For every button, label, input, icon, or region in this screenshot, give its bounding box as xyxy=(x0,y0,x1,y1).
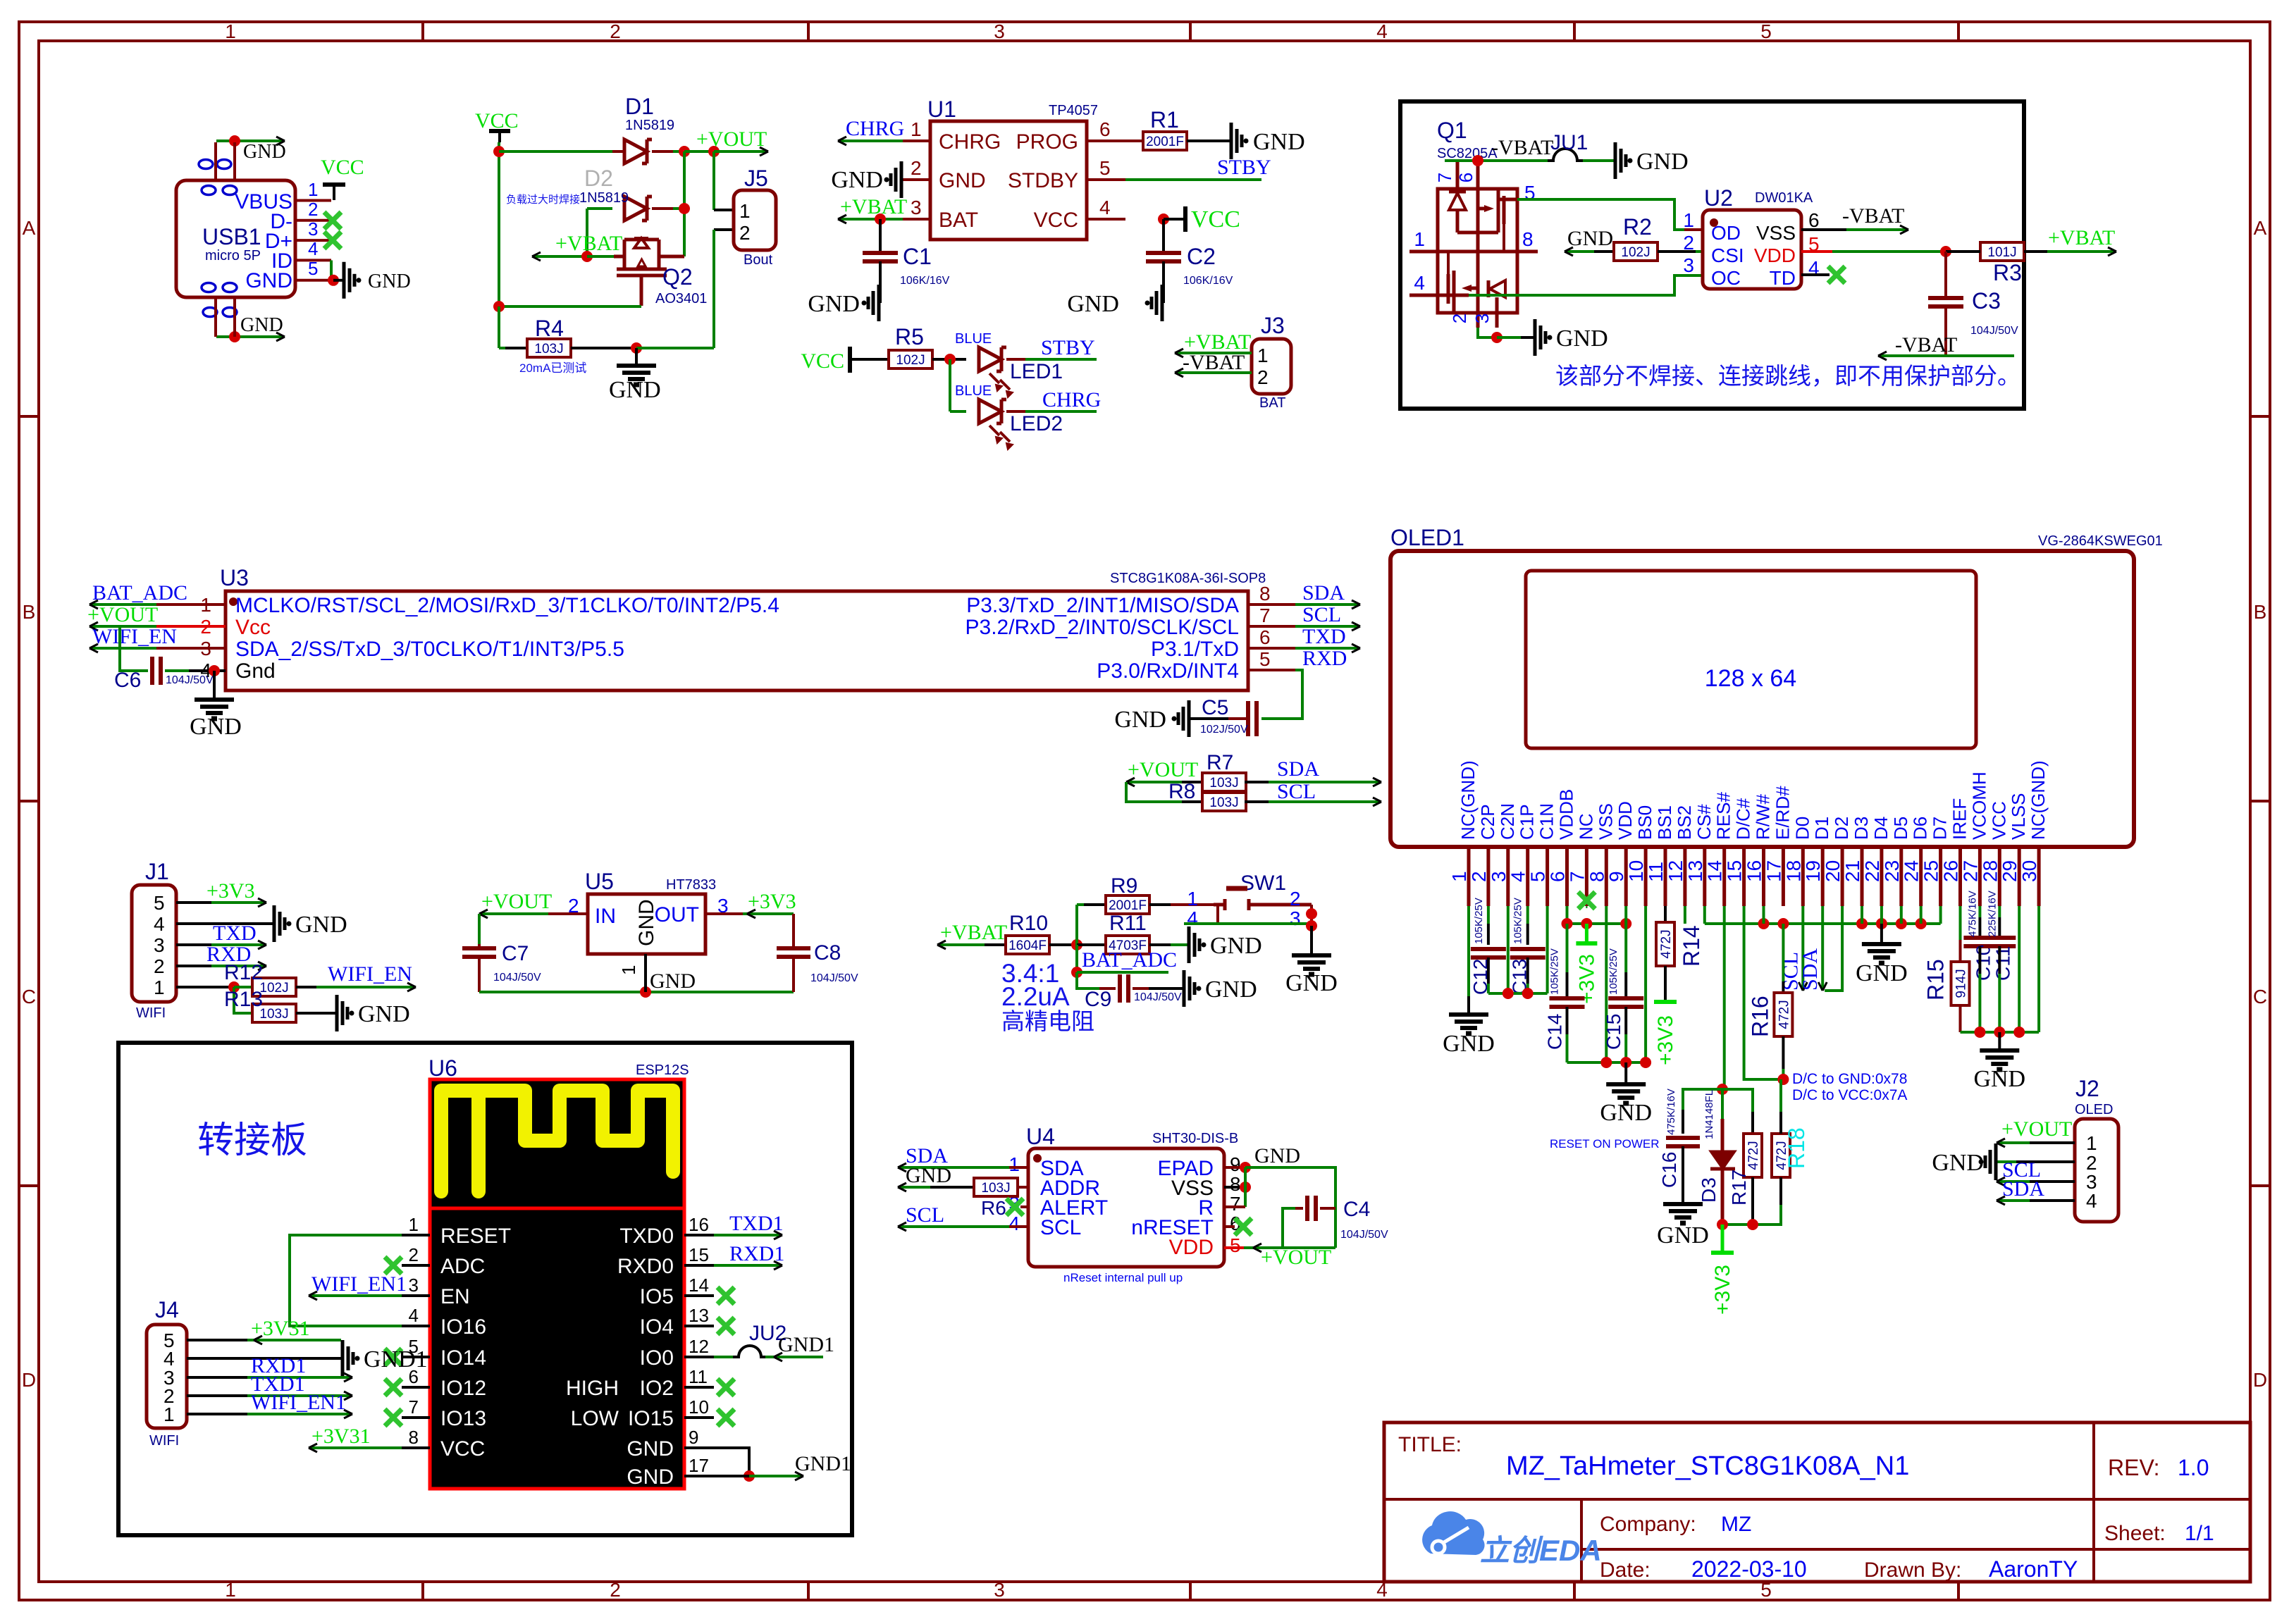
svg-text:1: 1 xyxy=(911,118,922,140)
svg-text:RES#: RES# xyxy=(1713,792,1734,840)
svg-text:15: 15 xyxy=(689,1244,709,1265)
J4 pin numbers xyxy=(163,1329,175,1425)
svg-text:CHRG: CHRG xyxy=(939,130,1001,154)
svg-text:BAT_ADC: BAT_ADC xyxy=(92,581,187,605)
connector J1 body xyxy=(132,885,176,1002)
wire U5 out xyxy=(705,912,743,915)
junction sw1 a xyxy=(1306,908,1317,919)
svg-text:3: 3 xyxy=(154,934,165,956)
junction USB1 top xyxy=(229,135,240,147)
svg-text:2: 2 xyxy=(1468,871,1490,882)
diode D1 xyxy=(624,140,647,163)
svg-text:3: 3 xyxy=(994,20,1005,42)
svg-text:Gnd: Gnd xyxy=(235,659,276,683)
title block divider h2 xyxy=(1581,1548,2250,1551)
svg-text:D/C to GND:0x78: D/C to GND:0x78 xyxy=(1792,1071,1907,1087)
svg-text:1: 1 xyxy=(308,179,318,200)
svg-text:105K/25V: 105K/25V xyxy=(1608,948,1619,995)
svg-text:IO5: IO5 xyxy=(640,1285,674,1308)
svg-text:VCC: VCC xyxy=(321,156,364,179)
jumper JU1 xyxy=(1548,149,1583,161)
junction rail p6 xyxy=(1562,918,1573,929)
wire C8 col xyxy=(792,914,795,948)
svg-text:+3V3: +3V3 xyxy=(1654,1015,1677,1065)
wire oled pin13 xyxy=(1703,906,1706,924)
svg-text:VLSS: VLSS xyxy=(2008,793,2029,841)
no-connect X nreset xyxy=(1224,1225,1235,1228)
no-connect X io15 xyxy=(717,1409,734,1426)
svg-text:11: 11 xyxy=(1645,862,1667,882)
IC U1 body xyxy=(930,121,1087,240)
svg-text:7: 7 xyxy=(1230,1193,1241,1215)
Q1 pin numbers xyxy=(1414,173,1535,323)
svg-text:2022-03-10: 2022-03-10 xyxy=(1691,1556,1807,1582)
svg-text:HIGH: HIGH xyxy=(566,1377,619,1400)
svg-text:1: 1 xyxy=(1257,345,1269,366)
svg-text:IO2: IO2 xyxy=(640,1377,674,1400)
module U6 body xyxy=(430,1079,684,1489)
svg-text:8: 8 xyxy=(1522,228,1534,250)
adapter board box xyxy=(118,1043,852,1535)
power flag +3V3 r14 xyxy=(1654,1000,1677,1004)
ground oled rail xyxy=(1880,924,1883,943)
svg-text:SCL: SCL xyxy=(1040,1216,1081,1239)
wire C6 tap xyxy=(120,626,148,671)
svg-text:C7: C7 xyxy=(502,942,529,965)
svg-text:8: 8 xyxy=(1230,1173,1241,1195)
capacitor C11 xyxy=(1983,936,2016,940)
junction rail p7 xyxy=(1581,918,1592,929)
svg-text:SDA: SDA xyxy=(1798,948,1822,991)
svg-text:TXD1: TXD1 xyxy=(729,1212,784,1235)
wire sw1 left down xyxy=(1216,905,1219,924)
U3 pin1 dot xyxy=(229,597,237,606)
svg-text:E/RD#: E/RD# xyxy=(1772,786,1793,840)
svg-text:IO15: IO15 xyxy=(628,1407,674,1430)
wire C14 top xyxy=(1566,924,1569,972)
svg-text:20mA已测试: 20mA已测试 xyxy=(519,361,586,375)
svg-text:TP4057: TP4057 xyxy=(1049,103,1098,118)
svg-text:2: 2 xyxy=(1449,314,1470,323)
diode LED2 xyxy=(979,399,1001,423)
junction res node xyxy=(1717,1084,1728,1095)
wire WIFI_EN u3 xyxy=(90,647,156,650)
svg-text:15: 15 xyxy=(1724,860,1746,882)
wire Q1 pin5 to U2 OD xyxy=(1517,199,1684,230)
svg-text:BLUE: BLUE xyxy=(955,331,992,347)
svg-text:GND: GND xyxy=(1636,149,1689,175)
IC U5 body xyxy=(588,894,705,954)
LED1 arrows xyxy=(989,373,1013,397)
diode D2 xyxy=(624,197,647,221)
power flag +3V3 oled xyxy=(1585,924,1588,943)
svg-text:4: 4 xyxy=(1099,197,1111,218)
svg-text:5: 5 xyxy=(1760,20,1772,42)
svg-text:24: 24 xyxy=(1901,860,1923,882)
J2 pin numbers xyxy=(2086,1132,2097,1212)
svg-text:+VOUT: +VOUT xyxy=(2001,1117,2072,1141)
wire R11 gnd xyxy=(1149,943,1171,946)
svg-text:R17: R17 xyxy=(1728,1170,1750,1205)
junction d3 b xyxy=(1747,1219,1758,1230)
wire oled pin11 xyxy=(1664,906,1667,923)
wire sw1 row2 xyxy=(1184,922,1312,925)
ground oled pin1 xyxy=(1449,1012,1488,1017)
svg-text:102J/50V: 102J/50V xyxy=(1200,724,1248,736)
OLED screen box xyxy=(1526,571,1976,748)
svg-text:GND: GND xyxy=(1657,1222,1709,1248)
svg-text:GND: GND xyxy=(627,1437,674,1461)
U6 antenna divider xyxy=(430,1207,684,1210)
wire D2 anode col xyxy=(586,209,588,256)
svg-text:+VOUT: +VOUT xyxy=(1261,1246,1331,1269)
wire vss col xyxy=(1244,1167,1247,1207)
svg-text:29: 29 xyxy=(1999,860,2020,882)
svg-text:-VBAT: -VBAT xyxy=(1895,333,1957,357)
U1 pin numbers xyxy=(911,118,1111,218)
svg-text:Date:: Date: xyxy=(1600,1558,1651,1582)
wire R4 row left xyxy=(499,347,505,349)
svg-text:GND: GND xyxy=(243,141,286,163)
no-connect X pin2 xyxy=(324,212,341,229)
svg-text:LOW: LOW xyxy=(571,1407,619,1430)
svg-text:19: 19 xyxy=(1802,860,1824,882)
junction +VBAT node xyxy=(581,251,593,262)
svg-text:micro 5P: micro 5P xyxy=(205,248,261,264)
svg-text:GND: GND xyxy=(635,899,658,946)
svg-text:2.2uA: 2.2uA xyxy=(1001,982,1070,1011)
resistor R7 xyxy=(1202,773,1246,791)
svg-text:4: 4 xyxy=(1187,907,1198,929)
svg-text:7: 7 xyxy=(1566,871,1588,882)
svg-text:GND: GND xyxy=(1973,1066,2025,1092)
wire -VBAT q1 top xyxy=(1445,159,1548,162)
svg-text:7: 7 xyxy=(409,1396,419,1418)
wire oled pin21 xyxy=(1861,906,1863,924)
capacitor C12 xyxy=(1471,947,1506,951)
svg-text:9: 9 xyxy=(1230,1153,1241,1175)
svg-text:1: 1 xyxy=(1187,888,1198,910)
U1 pin leads xyxy=(903,141,1125,219)
junction VCC node xyxy=(493,146,505,157)
U2 pin names xyxy=(1711,222,1796,289)
svg-text:1: 1 xyxy=(739,200,751,222)
wire oled pin9 top xyxy=(1624,906,1627,924)
svg-text:+VOUT: +VOUT xyxy=(1128,758,1198,781)
wire r11 left xyxy=(1077,943,1106,946)
svg-text:VSS: VSS xyxy=(1595,803,1616,840)
svg-text:STBY: STBY xyxy=(1217,156,1271,179)
svg-text:nReset internal pull up: nReset internal pull up xyxy=(1063,1271,1183,1284)
junction gnd17 xyxy=(744,1470,755,1482)
svg-text:GND: GND xyxy=(1210,933,1262,959)
junction R4 gnd xyxy=(631,342,642,354)
wire U4 scl xyxy=(1009,1225,1028,1228)
wire C13 bottom xyxy=(1526,957,1529,984)
svg-text:16: 16 xyxy=(1744,860,1765,882)
LED2 arrows xyxy=(989,426,1013,450)
svg-text:A: A xyxy=(2254,217,2267,239)
svg-text:5: 5 xyxy=(1230,1234,1241,1256)
wire R14 bottom xyxy=(1664,966,1667,1002)
wire BAT to C1 xyxy=(879,219,882,253)
svg-text:3: 3 xyxy=(1471,314,1493,323)
wire gnd to R6 xyxy=(898,1186,930,1189)
wire Q1 bottom xyxy=(1478,328,1497,337)
svg-text:MZ_TaHmeter_STC8G1K08A_N1: MZ_TaHmeter_STC8G1K08A_N1 xyxy=(1506,1451,1909,1481)
svg-text:GND: GND xyxy=(1443,1031,1495,1057)
wire J3 pin2 xyxy=(1175,371,1252,374)
wire C8 down xyxy=(792,957,795,992)
svg-text:28: 28 xyxy=(1979,860,2001,882)
svg-text:P3.1/TxD: P3.1/TxD xyxy=(1151,638,1239,661)
wire C10 bottom xyxy=(1978,946,1981,974)
wire J4 pin2 xyxy=(187,1394,247,1397)
svg-text:2: 2 xyxy=(409,1244,419,1265)
svg-text:SDA: SDA xyxy=(1277,757,1319,781)
svg-text:VCOMH: VCOMH xyxy=(1968,771,1989,840)
wire oled pin28 xyxy=(1998,906,2001,917)
svg-text:U4: U4 xyxy=(1026,1124,1055,1149)
resistor R18 xyxy=(1772,1134,1790,1177)
junction r10 node xyxy=(1071,939,1082,950)
svg-text:102J: 102J xyxy=(1621,245,1650,260)
svg-text:GND: GND xyxy=(1253,129,1305,155)
capacitor C8 xyxy=(777,946,810,950)
svg-text:U5: U5 xyxy=(585,869,614,894)
svg-text:14: 14 xyxy=(1704,860,1726,882)
svg-text:GND: GND xyxy=(1567,227,1613,250)
svg-text:12: 12 xyxy=(689,1336,709,1357)
svg-text:102J: 102J xyxy=(896,353,925,368)
wire oled pin3 xyxy=(1507,906,1510,993)
junction J1 pin1 xyxy=(228,981,240,993)
wire Q2 gate xyxy=(499,305,641,308)
wire oled pin27 xyxy=(1978,906,1981,917)
svg-text:2: 2 xyxy=(610,20,621,42)
wire oled pin19 xyxy=(1821,906,1824,924)
svg-text:C16: C16 xyxy=(1658,1152,1680,1188)
svg-text:+VOUT: +VOUT xyxy=(696,128,767,151)
no-connect X alert xyxy=(1020,1205,1028,1208)
svg-text:475K/16V: 475K/16V xyxy=(1665,1089,1677,1135)
ground J4 xyxy=(341,1340,345,1377)
wire VDD out xyxy=(1801,250,1832,253)
wire C7 down xyxy=(478,957,481,992)
svg-text:7: 7 xyxy=(1434,173,1455,182)
svg-text:U6: U6 xyxy=(428,1055,457,1081)
svg-text:SDA: SDA xyxy=(1302,581,1345,605)
svg-text:1: 1 xyxy=(2086,1132,2097,1154)
U4 pin names xyxy=(1040,1157,1214,1259)
wire c9 col xyxy=(1077,972,1099,988)
power flag +3V3 d3 xyxy=(1721,1225,1725,1253)
wire oled pin26 xyxy=(1959,906,1962,940)
svg-text:NC: NC xyxy=(1575,813,1596,840)
junction gnd rail a xyxy=(1600,1057,1612,1068)
resistor R13 xyxy=(252,1004,296,1022)
wire 3v3 rail xyxy=(1567,922,1627,925)
svg-text:1604F: 1604F xyxy=(1008,938,1047,953)
wire R16 bottom xyxy=(1782,1036,1784,1069)
svg-text:A: A xyxy=(23,217,36,239)
svg-text:8: 8 xyxy=(1259,583,1271,605)
J1 pin numbers xyxy=(154,892,165,998)
svg-text:-VBAT: -VBAT xyxy=(1491,136,1553,159)
svg-text:GND: GND xyxy=(245,269,292,292)
capacitor C16 xyxy=(1666,1136,1700,1140)
svg-text:IN: IN xyxy=(595,905,616,928)
svg-text:5: 5 xyxy=(1527,871,1549,882)
wire USB1 shield top xyxy=(216,140,285,142)
wire R9 right xyxy=(1149,903,1171,906)
svg-text:负载过大时焊接: 负载过大时焊接 xyxy=(506,194,580,206)
svg-text:2: 2 xyxy=(154,955,165,977)
OLED1 body xyxy=(1390,551,2134,847)
svg-text:ESP12S: ESP12S xyxy=(636,1062,689,1078)
resistor R10 xyxy=(1006,936,1049,954)
svg-text:2001F: 2001F xyxy=(1109,898,1147,913)
svg-text:1: 1 xyxy=(225,1579,236,1601)
junction q1 top xyxy=(1472,155,1483,166)
svg-text:128 x 64: 128 x 64 xyxy=(1705,665,1796,692)
U1 pin names xyxy=(939,130,1078,232)
svg-text:D/C to VCC:0x7A: D/C to VCC:0x7A xyxy=(1792,1087,1907,1103)
svg-text:1/1: 1/1 xyxy=(2185,1522,2214,1545)
svg-text:18: 18 xyxy=(1782,860,1804,882)
svg-text:PROG: PROG xyxy=(1016,130,1078,154)
ground c14 rail xyxy=(1624,1062,1627,1083)
svg-text:103J: 103J xyxy=(259,1007,288,1022)
svg-text:C: C xyxy=(2253,986,2267,1008)
svg-text:VDD: VDD xyxy=(1169,1236,1214,1259)
svg-text:TXD: TXD xyxy=(1302,625,1346,648)
wire D1 out xyxy=(684,150,714,153)
svg-text:R7: R7 xyxy=(1207,751,1233,774)
svg-text:6: 6 xyxy=(1259,626,1271,648)
svg-text:7: 7 xyxy=(1259,605,1271,626)
svg-text:D3: D3 xyxy=(1851,817,1872,840)
ground C1 xyxy=(877,285,881,321)
svg-text:R2: R2 xyxy=(1623,214,1652,240)
wire oled pin18 xyxy=(1801,906,1804,924)
svg-text:GND: GND xyxy=(1932,1150,1984,1176)
svg-text:VCC: VCC xyxy=(1988,801,2009,840)
svg-text:TD: TD xyxy=(1770,267,1796,289)
wire J2 pin2 xyxy=(2016,1160,2075,1163)
wire R6 right xyxy=(1018,1186,1028,1189)
wire R15 bottom xyxy=(1959,1005,1962,1032)
wire CHRG xyxy=(838,140,903,142)
svg-text:GND: GND xyxy=(1556,326,1608,352)
junction DC node xyxy=(1777,1074,1789,1085)
svg-text:SC8205A: SC8205A xyxy=(1437,146,1498,161)
svg-text:D2: D2 xyxy=(584,166,613,191)
svg-text:NC(GND): NC(GND) xyxy=(1457,760,1479,840)
svg-text:IO16: IO16 xyxy=(440,1315,486,1339)
svg-text:C5: C5 xyxy=(1202,696,1228,719)
svg-text:DW01KA: DW01KA xyxy=(1755,190,1813,206)
svg-text:C1N: C1N xyxy=(1536,803,1557,840)
resistor R6 xyxy=(974,1178,1018,1196)
wire C3 down xyxy=(1944,306,1947,356)
wire R3 to +VBAT xyxy=(2024,250,2047,253)
wire U5 gnd pin xyxy=(644,954,647,992)
svg-text:IO4: IO4 xyxy=(640,1315,674,1339)
wire C7 col xyxy=(478,914,481,944)
junction vss xyxy=(1240,1182,1251,1193)
svg-text:P3.2/RxD_2/INT0/SCLK/SCL: P3.2/RxD_2/INT0/SCLK/SCL xyxy=(965,616,1240,639)
wire r8 left xyxy=(1126,782,1182,802)
wire gnd to R2 xyxy=(1565,250,1594,253)
svg-text:U1: U1 xyxy=(927,97,956,122)
wire res left xyxy=(1683,1089,1722,1110)
svg-text:472J: 472J xyxy=(1746,1141,1761,1170)
svg-text:Company:: Company: xyxy=(1600,1513,1696,1536)
U2 pin1 dot xyxy=(1710,218,1718,227)
svg-text:GND: GND xyxy=(1067,291,1119,317)
svg-text:3: 3 xyxy=(409,1275,419,1296)
ground C9 xyxy=(1183,970,1186,1007)
svg-text:SCL: SCL xyxy=(1302,603,1341,626)
svg-text:Sheet:: Sheet: xyxy=(2104,1522,2166,1545)
svg-text:5: 5 xyxy=(154,892,165,914)
capacitor C4 xyxy=(1305,1196,1309,1221)
USB1 shield pads xyxy=(199,160,237,317)
svg-text:104J/50V: 104J/50V xyxy=(810,972,858,984)
svg-text:D1: D1 xyxy=(1811,817,1832,840)
ground J2 xyxy=(1994,1143,1998,1180)
wire D1D2 cathodes xyxy=(683,151,686,256)
resistor R8 xyxy=(1202,793,1246,811)
svg-text:VDDB: VDDB xyxy=(1556,789,1577,840)
wire R12 WIFI_EN xyxy=(296,986,316,988)
wire oled pin2 xyxy=(1487,906,1490,924)
junction cap rail b xyxy=(1522,988,1534,999)
ground C2 xyxy=(1161,285,1164,321)
svg-text:3: 3 xyxy=(911,197,922,218)
power flag VCC at USB pin1 xyxy=(333,185,335,200)
svg-text:IREF: IREF xyxy=(1949,798,1970,840)
wire J1 pin3 xyxy=(176,943,211,946)
U3 pin numbers xyxy=(200,583,1270,681)
svg-text:IO14: IO14 xyxy=(440,1346,486,1370)
ground U1 gnd pin xyxy=(900,161,903,198)
wire 3v3 row xyxy=(1722,1223,1753,1226)
capacitor C2 xyxy=(1146,251,1181,255)
svg-text:C8: C8 xyxy=(814,941,841,965)
wire JU1 to gnd xyxy=(1583,159,1614,162)
svg-text:30: 30 xyxy=(2018,860,2040,882)
svg-text:CHRG: CHRG xyxy=(1042,388,1101,411)
wire TXD u3 xyxy=(1248,647,1295,650)
svg-text:WIFI: WIFI xyxy=(136,1005,166,1021)
U6 pin names xyxy=(440,1225,674,1489)
wire oled pin5 xyxy=(1546,906,1549,993)
diode LED1 xyxy=(979,347,1001,371)
svg-text:CHRG: CHRG xyxy=(846,117,904,140)
svg-text:13: 13 xyxy=(1684,860,1706,882)
wire oled pin30 xyxy=(2037,906,2040,1032)
svg-text:J3: J3 xyxy=(1261,313,1285,338)
svg-text:B: B xyxy=(2254,601,2267,623)
svg-text:GND: GND xyxy=(627,1465,674,1489)
wire c4 tap xyxy=(1283,1208,1295,1248)
wire J2 pin1 xyxy=(2030,1141,2075,1144)
svg-text:10: 10 xyxy=(1625,860,1647,882)
svg-text:R18: R18 xyxy=(1784,1127,1809,1169)
wire oled pin14 xyxy=(1723,906,1726,924)
